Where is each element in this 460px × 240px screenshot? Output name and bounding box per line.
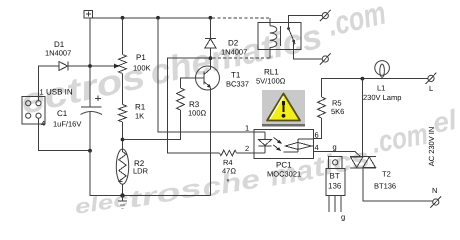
wire B: D2 node left and down to R4 [167, 58, 219, 153]
svg-text:230V Lamp: 230V Lamp [363, 93, 401, 102]
wire left vertical from +5 flag to D1 node [89, 18, 91, 66]
wire gate from PC1 pin4 [314, 151, 361, 156]
diode D2 1N4007 [205, 18, 216, 48]
terminal N [430, 196, 441, 207]
svg-text:g: g [333, 143, 337, 152]
BT136 package [326, 157, 345, 212]
wire top rail [90, 17, 210, 19]
svg-text:1: 1 [40, 88, 44, 97]
node ground rail R2 [120, 193, 124, 197]
watermark electroschematics.com lower band [73, 104, 460, 219]
USB IN connector J1 [22, 97, 45, 125]
wire R3 top to T1 base [181, 78, 205, 88]
transistor T1 BC337 [196, 66, 220, 90]
svg-text:2: 2 [245, 144, 249, 153]
terminal L [426, 73, 437, 84]
svg-text:1: 1 [245, 124, 249, 133]
wire divider node to R3 bottom [123, 110, 181, 140]
svg-text:BC337: BC337 [226, 80, 249, 89]
node D1/C1/+5 [88, 64, 92, 68]
svg-text:*: * [227, 177, 230, 186]
wire PC1 pin6 to R5 [314, 118, 322, 139]
svg-text:USB IN: USB IN [46, 88, 73, 97]
wire R5 top to lamp line [322, 79, 428, 97]
lamp L1 230V [375, 61, 390, 78]
node top rail D2 [209, 16, 213, 20]
wire A: top rail to PC1 pin1 [158, 18, 265, 132]
svg-text:R1: R1 [135, 103, 146, 112]
triac T2 BT136 [350, 157, 376, 168]
wire lamp node down to triac [361, 79, 363, 157]
wire R1 bottom to divider node [122, 122, 124, 152]
node divider R1/R2/R3 [121, 138, 125, 142]
resistor R1 1K [119, 105, 127, 123]
svg-text:L: L [429, 84, 433, 93]
svg-text:100K: 100K [133, 64, 151, 73]
wire dashed D2 node to relay coil bottom [212, 57, 269, 59]
svg-text:L1: L1 [377, 84, 385, 93]
svg-text:47Ω: 47Ω [222, 167, 236, 176]
resistor R4 47ohm [220, 150, 237, 156]
svg-text:5K6: 5K6 [331, 107, 344, 116]
wire relay bottom contact to terminal [294, 41, 323, 59]
svg-text:1N4007: 1N4007 [45, 49, 71, 58]
svg-text:1N4007: 1N4007 [221, 48, 247, 57]
ground symbol [118, 196, 127, 209]
wire USB pin1 up to D1 [39, 66, 60, 101]
svg-text:C1: C1 [57, 109, 68, 118]
svg-text:N: N [432, 186, 437, 195]
wire T1 emitter down to ground rail [209, 87, 211, 195]
wire USB pin4 down to C1 bottom lead [39, 118, 91, 150]
diode D1 1N4007 [59, 62, 68, 71]
svg-text:P1: P1 [136, 53, 146, 62]
wire relay top contact to terminal [289, 16, 323, 29]
svg-text:T1: T1 [231, 71, 241, 80]
node lamp / triac [361, 77, 365, 81]
wire C1 bottom to ground rail [90, 151, 210, 196]
svg-text:100Ω: 100Ω [188, 109, 207, 118]
phototriac inside PC1 [283, 139, 313, 152]
relay RL1 5V/100ohm [258, 18, 301, 58]
terminal relay bottom [320, 53, 331, 64]
+5V supply flag box [84, 11, 93, 18]
wire P1 bottom to R1 [122, 74, 124, 105]
svg-text:LDR: LDR [133, 167, 149, 176]
wire top rail dashed to relay coil [212, 17, 270, 19]
wire R2 bottom to ground rail [122, 184, 124, 195]
wire R4 to PC1 pin2 [237, 152, 266, 154]
wire T1 collector to D2 node [209, 48, 211, 69]
svg-text:1uF/16V: 1uF/16V [53, 120, 81, 129]
wire triac bottom to N terminal [363, 168, 433, 201]
svg-text:PC1: PC1 [276, 161, 292, 170]
potentiometer P1 100K [114, 18, 127, 74]
LED inside PC1 [259, 132, 272, 153]
svg-text:5V/100Ω: 5V/100Ω [256, 77, 286, 86]
optocoupler PC1 MOC3021 [254, 130, 314, 159]
svg-text:MOC3021: MOC3021 [267, 170, 301, 179]
warning icon [262, 90, 305, 127]
node top rail P1 [121, 16, 125, 20]
svg-text:4: 4 [41, 119, 45, 128]
svg-text:BT136: BT136 [374, 182, 396, 191]
resistor R5 5K6 [318, 97, 326, 118]
node C1 bottom / USB pin4 [88, 149, 92, 153]
capacitor C1 1uF/16V [81, 66, 103, 151]
svg-text:T2: T2 [382, 170, 391, 179]
node top rail PC1 pin1 wire [156, 16, 160, 20]
terminal relay top [320, 10, 331, 21]
svg-text:D2: D2 [228, 39, 239, 48]
svg-text:4: 4 [315, 143, 319, 152]
LDR R2 [116, 149, 128, 184]
svg-text:1K: 1K [135, 112, 144, 121]
resistor R3 100ohm [177, 88, 185, 110]
node D2 anode / collector / wire B [209, 56, 213, 60]
watermark electroschematics.com upper band [17, 0, 389, 122]
svg-text:g: g [341, 213, 345, 222]
svg-text:136: 136 [328, 182, 342, 191]
svg-text:AC 230V IN: AC 230V IN [427, 127, 436, 167]
svg-text:BT: BT [330, 172, 340, 181]
LED light arrows [273, 137, 282, 151]
svg-text:RL1: RL1 [264, 68, 279, 77]
wire D1 cathode to +5 node and P1 wiper [68, 65, 117, 67]
